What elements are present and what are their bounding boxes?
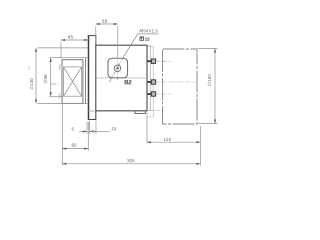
spline cross diagonal 1 [64, 67, 82, 96]
phantom motor outline [163, 49, 198, 124]
end cover plate [147, 46, 150, 111]
flange left face thick [88, 36, 90, 120]
svg-text:M54X1.5: M54X1.5 [139, 28, 158, 33]
svg-text:5: 5 [71, 127, 74, 132]
shaft spline box inner [64, 67, 82, 96]
svg-text:60: 60 [71, 143, 77, 148]
port square B2 [108, 58, 128, 78]
dimension dia 130 [36, 48, 88, 104]
svg-text:B2: B2 [124, 80, 132, 86]
flange bottom edge [88, 119, 97, 121]
stud fitting 1 [147, 59, 172, 63]
port diagonal axis [109, 56, 124, 82]
svg-text:∅88: ∅88 [43, 74, 48, 84]
svg-text:-0.1: -0.1 [27, 66, 31, 71]
svg-text:∅130: ∅130 [29, 78, 34, 90]
port vertical centerline [117, 56, 119, 81]
end cover outer line [148, 46, 154, 117]
centerline main shaft axis [51, 83, 60, 85]
svg-text:125: 125 [163, 137, 171, 142]
body machined face line [96, 77, 147, 79]
dimension 125 [147, 113, 200, 166]
stud fitting 2 [147, 80, 196, 84]
dimension 5 [79, 121, 90, 135]
main body rectangle [96, 45, 147, 111]
shaft spline box outer [62, 60, 83, 104]
dimension 60 [62, 104, 88, 166]
spline cross diagonal 2 [64, 67, 82, 96]
svg-text:∅150: ∅150 [207, 74, 212, 86]
svg-text:59: 59 [102, 19, 108, 25]
break squiggle top [59, 65, 61, 70]
flange top edge [88, 35, 97, 37]
dimension 45 [61, 40, 88, 59]
svg-text:15: 15 [145, 37, 151, 42]
text depth 15 [140, 37, 150, 42]
flange right face / body front [95, 36, 97, 120]
port inner dot [116, 67, 119, 70]
bottom plug boss [135, 111, 145, 114]
flange lower hidden step [87, 110, 96, 112]
dimension 59 [96, 24, 118, 57]
leader to thread callout [124, 34, 158, 56]
collar front face [84, 58, 86, 104]
dimension dia 150 [198, 49, 218, 124]
port circle [114, 65, 121, 72]
dimension 15 [90, 121, 110, 135]
stud fitting 3 [147, 92, 172, 96]
body bottom light extension [147, 110, 160, 112]
dimension dia 88 [49, 58, 88, 97]
break squiggle bottom [59, 94, 61, 99]
svg-text:45: 45 [68, 35, 74, 41]
svg-text:15: 15 [111, 126, 117, 131]
dimension 308 [62, 163, 200, 165]
svg-text:308: 308 [127, 158, 135, 163]
